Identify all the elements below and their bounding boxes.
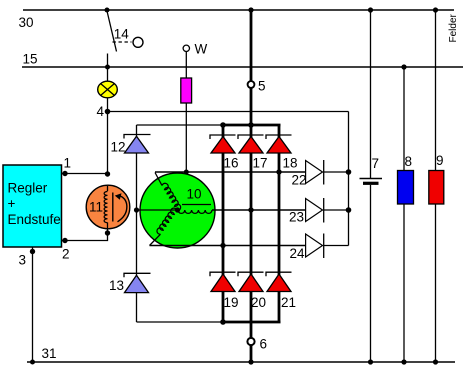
node R9 on bus 30 xyxy=(433,7,438,12)
rectifier column 2 xyxy=(250,125,253,322)
svg-text:20: 20 xyxy=(251,295,266,310)
stator winding v coil xyxy=(157,208,177,234)
svg-text:16: 16 xyxy=(224,156,239,171)
wire B- lower vertical (thick) xyxy=(250,322,253,362)
svg-text:30: 30 xyxy=(19,15,34,30)
wire phase v line xyxy=(212,209,306,211)
stator winding w coil xyxy=(178,210,212,213)
wire ground bus 31 xyxy=(27,361,455,363)
diode D13 (exciter, blue) xyxy=(124,273,151,292)
label W xyxy=(195,42,208,57)
node C7 on bus 30 xyxy=(368,7,373,12)
wire phase w line xyxy=(150,245,306,247)
switch S14 blade xyxy=(107,11,117,52)
label 19 xyxy=(224,295,239,310)
svg-text:11: 11 xyxy=(89,200,103,215)
label 21 xyxy=(281,295,296,310)
rotor field winding G11 xyxy=(86,185,130,233)
wire terminal 1 xyxy=(62,173,108,175)
diode D20 (minus, red) xyxy=(238,272,264,291)
svg-text:22: 22 xyxy=(292,173,307,188)
label 4 xyxy=(97,104,105,119)
svg-text:7: 7 xyxy=(372,156,380,171)
capacitor C7 bottom lead xyxy=(370,185,372,362)
label 13 xyxy=(109,278,124,293)
wire D+ right vertical xyxy=(348,112,350,246)
node terminal 2 dot xyxy=(62,238,67,243)
node stator star point xyxy=(175,207,180,212)
wire terminal 2 xyxy=(62,233,108,241)
diode D17 (plus, red) xyxy=(238,135,264,153)
svg-text:2: 2 xyxy=(62,247,70,262)
label 10 xyxy=(187,187,202,202)
diode D24 (exciter) xyxy=(306,234,349,259)
node D23 cathode on D+ vertical xyxy=(346,207,352,213)
label 3 xyxy=(19,253,27,268)
wire B+ main vertical (thick) xyxy=(250,10,253,125)
node ground junction 3 xyxy=(30,360,35,365)
label 7 xyxy=(372,156,380,171)
wire W lead upper xyxy=(185,52,187,79)
stator G10 xyxy=(140,173,215,248)
node B+ on bus 30 xyxy=(248,7,253,12)
node bottom rail col1 xyxy=(220,319,226,325)
label 9 xyxy=(436,153,444,168)
svg-text:19: 19 xyxy=(224,295,239,310)
label Felder (vertical) xyxy=(448,13,459,42)
label 30 xyxy=(19,15,34,30)
diode D22 (exciter) xyxy=(306,160,349,185)
wire switch lower stub xyxy=(107,54,109,68)
svg-text:W: W xyxy=(195,42,208,57)
terminal 5 circle xyxy=(248,81,255,88)
wire star point to exciter column xyxy=(137,209,178,211)
node phase u at column 3 xyxy=(276,169,281,174)
label 23 xyxy=(289,210,304,225)
svg-text:3: 3 xyxy=(19,253,27,268)
regulator box Regler+Endstufe xyxy=(3,165,62,247)
svg-text:6: 6 xyxy=(260,337,268,352)
svg-text:+: + xyxy=(8,196,16,211)
label 17 xyxy=(253,156,268,171)
svg-text:5: 5 xyxy=(258,79,266,94)
svg-text:31: 31 xyxy=(42,346,57,361)
label 2 xyxy=(62,247,70,262)
svg-text:24: 24 xyxy=(290,246,306,261)
node D22 cathode on D+ vertical xyxy=(346,169,352,175)
label 22 xyxy=(292,173,307,188)
wire phase u line xyxy=(155,171,306,173)
node R8 on bus 15 xyxy=(401,64,406,69)
stator winding u lead xyxy=(155,173,162,186)
terminal W circle xyxy=(183,45,189,51)
label 6 xyxy=(260,337,268,352)
node top rail col1 xyxy=(220,122,226,128)
stator winding w core bar xyxy=(182,204,211,206)
capacitor C7 xyxy=(360,179,383,184)
node exciter column to star wire xyxy=(134,207,139,212)
diode D19 (minus, red) xyxy=(210,272,236,291)
label 11 xyxy=(89,200,103,215)
label 12 xyxy=(111,140,126,155)
label 20 xyxy=(251,295,266,310)
node terminal 3 dot xyxy=(30,249,35,254)
wire thin box top edge xyxy=(137,124,224,126)
resistor R9 top lead xyxy=(435,10,437,171)
svg-text:13: 13 xyxy=(109,278,124,293)
resistor R8 (blue) xyxy=(398,171,414,205)
label 24 xyxy=(290,246,306,261)
svg-text:15: 15 xyxy=(23,52,38,67)
label 1 xyxy=(64,156,72,171)
stator winding v lead xyxy=(150,234,161,245)
node junction on bus 30 at switch xyxy=(105,8,110,13)
wire terminal 4 / D+ horizontal xyxy=(108,111,349,113)
node junction wire1 to rotor column xyxy=(105,171,110,176)
svg-text:14: 14 xyxy=(114,27,130,42)
switch S14 actuator circle xyxy=(133,37,143,47)
svg-text:Felder: Felder xyxy=(448,13,459,42)
lamp H2 charge indicator xyxy=(98,81,118,98)
label 14 xyxy=(114,27,130,42)
resistor R9 bottom lead xyxy=(435,204,437,362)
wire lamp bottom lead xyxy=(107,98,109,112)
wire bus 30 xyxy=(23,9,454,11)
capacitor C7 top lead xyxy=(370,10,372,178)
node top rail col2 xyxy=(248,122,254,128)
wire exciter column (thin box left edge) xyxy=(136,125,138,322)
node phase w at column 1 xyxy=(220,243,225,248)
svg-text:21: 21 xyxy=(281,295,296,310)
wire thin box bottom edge xyxy=(137,321,224,323)
svg-text:9: 9 xyxy=(436,153,444,168)
resistor R8 top lead xyxy=(403,67,405,171)
node rotor bottom dot xyxy=(105,230,110,235)
node R8 on ground bus xyxy=(401,359,406,364)
svg-text:8: 8 xyxy=(405,154,413,169)
node C7 on ground bus xyxy=(368,359,373,364)
label 15 xyxy=(23,52,38,67)
wire W lead lower xyxy=(185,103,187,172)
label 8 xyxy=(405,154,413,169)
node phase v at column 2 xyxy=(248,207,253,212)
resistor RW (magenta) xyxy=(181,78,192,103)
terminal 6 circle xyxy=(247,338,254,345)
diode D12 (exciter, blue) xyxy=(124,135,151,154)
label 31 xyxy=(42,346,57,361)
svg-text:Endstufe: Endstufe xyxy=(8,212,61,227)
node W to phase u junction xyxy=(184,170,189,175)
wire bus 15 xyxy=(22,66,463,68)
node B- on ground bus xyxy=(248,359,253,364)
rectifier block bottom rail (thick) xyxy=(222,321,281,324)
svg-text:4: 4 xyxy=(97,104,105,119)
svg-text:18: 18 xyxy=(283,156,298,171)
resistor R8 bottom lead xyxy=(403,204,405,362)
diode D23 (exciter) xyxy=(306,198,349,223)
rectifier column 3 xyxy=(278,125,281,322)
svg-text:23: 23 xyxy=(289,210,304,225)
diode D21 (minus, red) xyxy=(266,272,292,291)
label 18 xyxy=(283,156,298,171)
diode D18 (plus, red) xyxy=(266,135,292,153)
node terminal 4 junction xyxy=(105,109,111,115)
label 5 xyxy=(258,79,266,94)
resistor R9 (red) xyxy=(429,171,444,205)
switch S14 actuator dashed link xyxy=(113,41,132,43)
wire lamp top lead xyxy=(107,67,109,82)
svg-text:12: 12 xyxy=(111,140,126,155)
rectifier block top rail (thick) xyxy=(222,124,281,127)
svg-text:1: 1 xyxy=(64,156,72,171)
node R9 on ground bus xyxy=(433,359,438,364)
svg-text:17: 17 xyxy=(253,156,268,171)
svg-text:Regler: Regler xyxy=(8,181,48,196)
wire from node 4 down to node 1 xyxy=(107,112,109,175)
diode D16 (plus, red) xyxy=(210,135,236,153)
wire terminal 3 to ground xyxy=(32,247,34,362)
label 16 xyxy=(224,156,239,171)
stator winding u coil xyxy=(162,183,181,210)
node junction on bus 15 at lamp xyxy=(105,65,110,70)
rectifier column 1 xyxy=(222,125,225,322)
node terminal 1 dot xyxy=(62,171,67,176)
svg-text:10: 10 xyxy=(187,187,202,202)
